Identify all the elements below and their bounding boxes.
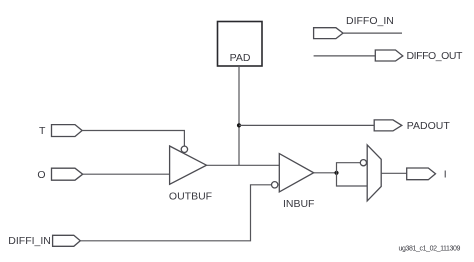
port O [52, 168, 83, 180]
wire O [83, 173, 170, 175]
wire PAD-down [238, 66, 240, 165]
wire DIFFI_IN [80, 185, 271, 241]
svg-text:DIFFI_IN: DIFFI_IN [8, 235, 51, 247]
port DIFFO_IN [314, 28, 343, 39]
wire mux-out [381, 172, 407, 174]
port T [52, 125, 83, 137]
wire DIFFO_OUT [314, 55, 376, 57]
wire PADOUT [239, 124, 374, 126]
svg-text:INBUF: INBUF [283, 198, 315, 210]
bubble OUTBUF tristate [181, 146, 187, 152]
buffer INBUF [279, 154, 313, 192]
svg-text:T: T [39, 125, 46, 137]
port I [407, 168, 436, 180]
port DIFFI_IN [53, 235, 81, 246]
wire mux-upper [337, 163, 361, 173]
buffer OUTBUF [170, 146, 207, 184]
mux [367, 145, 381, 201]
svg-text:PADOUT: PADOUT [407, 120, 451, 132]
wire INBUF-out [314, 172, 337, 174]
wire T [82, 131, 184, 147]
bubble INBUF diff input [272, 182, 278, 188]
port DIFFO_OUT [375, 50, 403, 61]
bubble MUX upper input [360, 160, 366, 166]
svg-text:ug381_c1_02_111309: ug381_c1_02_111309 [399, 246, 461, 253]
pad PAD [218, 22, 263, 67]
wire OUTBUF-INBUF [207, 164, 280, 166]
wire DIFFO_IN [343, 32, 402, 34]
svg-text:PAD: PAD [230, 52, 251, 64]
port PADOUT [374, 120, 402, 131]
node pad-padout junction [237, 123, 241, 127]
svg-text:OUTBUF: OUTBUF [169, 190, 212, 202]
svg-text:O: O [37, 169, 45, 181]
svg-text:DIFFO_OUT: DIFFO_OUT [407, 50, 463, 62]
node inbuf-mux junction [334, 171, 338, 175]
svg-text:DIFFO_IN: DIFFO_IN [346, 15, 394, 27]
svg-text:I: I [444, 169, 447, 181]
wire mux-lower [337, 173, 368, 186]
